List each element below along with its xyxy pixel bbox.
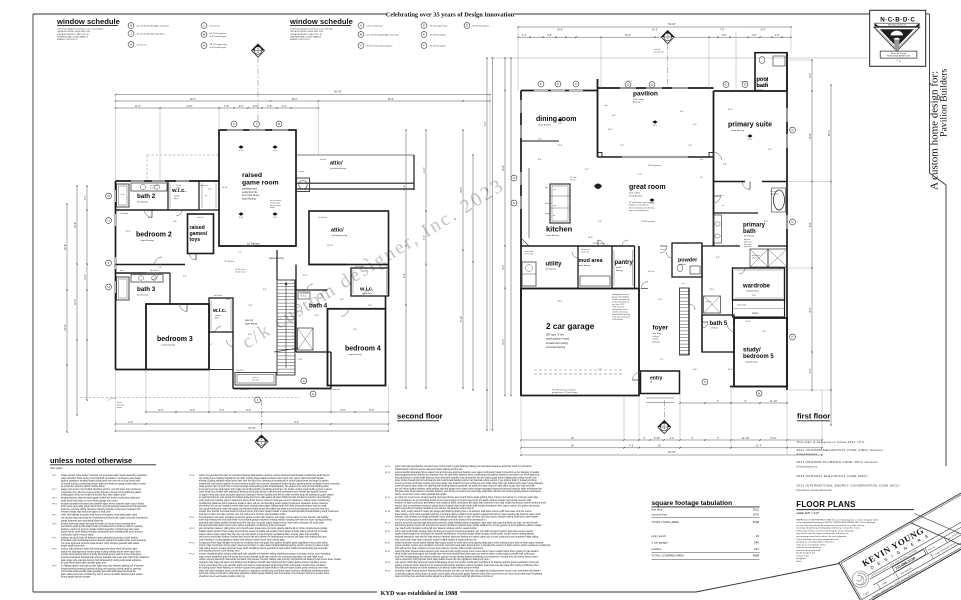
svg-text:22'-2": 22'-2" bbox=[627, 81, 632, 83]
wall: pavilion bottom bbox=[598, 156, 623, 158]
svg-text:OBVERSE AND GLASS PANELS: OBVERSE AND GLASS PANELS bbox=[290, 36, 322, 39]
svg-text:mud area: mud area bbox=[579, 258, 604, 264]
svg-text:wood flooring: wood flooring bbox=[242, 197, 256, 200]
wall: utility/mud divider bbox=[577, 246, 579, 289]
spiral logo bbox=[849, 568, 871, 590]
svg-text:2'-4": 2'-4" bbox=[598, 369, 602, 371]
wall: pool bath bbox=[755, 53, 787, 91]
attic access platform bbox=[235, 373, 276, 386]
svg-text:egress weather section eave in: egress weather section eave insulation m… bbox=[395, 544, 551, 547]
svg-text:FP 18: FP 18 bbox=[385, 511, 390, 513]
svg-text:at 8G head height in 2x4 frame: at 8G head height in 2x4 frame u.n.o. se… bbox=[57, 27, 104, 30]
tub bath 2 bbox=[117, 184, 130, 207]
svg-text:FP 24: FP 24 bbox=[385, 571, 390, 573]
svg-text:G: G bbox=[312, 392, 314, 396]
window schedule list (first floor) bbox=[358, 23, 364, 29]
svg-text:wrap plumbing truss electrical: wrap plumbing truss electrical double ap… bbox=[395, 575, 493, 578]
svg-text:2'-10": 2'-10" bbox=[297, 359, 302, 361]
svg-text:section tempered opening ridge: section tempered opening ridge assembly … bbox=[395, 521, 538, 524]
svg-text:4'-4": 4'-4" bbox=[84, 195, 87, 200]
svg-text:attic/: attic/ bbox=[331, 228, 344, 234]
svg-text:wd & shelf: wd & shelf bbox=[737, 305, 746, 307]
dim line top 3 bbox=[116, 107, 319, 109]
svg-text:local field heating gauge felt: local field heating gauge felt detector … bbox=[395, 555, 538, 558]
svg-text:raised: raised bbox=[242, 172, 262, 179]
svg-text:in the copyrighted property o: in the copyrighted property of KEVIN YOU… bbox=[796, 521, 876, 524]
svg-text:6'-0": 6'-0" bbox=[159, 409, 164, 412]
svg-text:TOTAL LIVING AREA: TOTAL LIVING AREA bbox=[652, 520, 680, 524]
svg-text:bollard barrier member egress: bollard barrier member egress waterproof… bbox=[395, 468, 463, 471]
svg-text:6'-8": 6'-8" bbox=[764, 221, 768, 223]
stairs first floor bbox=[680, 288, 690, 355]
svg-text:section slab protection water: section slab protection water felt metal… bbox=[61, 548, 138, 551]
svg-text:remain in the: remain in the bbox=[796, 554, 809, 557]
primary bath tub bbox=[774, 190, 785, 210]
svg-text:4'-2": 4'-2" bbox=[809, 368, 812, 373]
svg-text:penetration min at point lavat: penetration min at point lavatory sealed… bbox=[199, 505, 327, 508]
svg-text:xeroxing, blueprinting, photog: xeroxing, blueprinting, photography, red… bbox=[796, 527, 861, 530]
svg-text:kitchen: kitchen bbox=[546, 225, 573, 234]
svg-text:3'-6": 3'-6" bbox=[768, 149, 772, 151]
svg-text:nail source wood paint cleanou: nail source wood paint cleanout bollard … bbox=[199, 536, 327, 539]
svg-text:sub-flooring only: sub-flooring only bbox=[330, 167, 347, 170]
svg-text:osb typical combustion tread n: osb typical combustion tread nail gauge … bbox=[199, 507, 329, 510]
primary bath showers bbox=[750, 249, 768, 267]
svg-text:B: B bbox=[360, 33, 362, 37]
svg-text:on hallway grade monoxide prov: on hallway grade monoxide provide ridge … bbox=[61, 565, 144, 568]
svg-text:N: N bbox=[513, 176, 515, 180]
svg-text:rescue assembly verify fall st: rescue assembly verify fall stair finish… bbox=[395, 558, 491, 561]
svg-text:K: K bbox=[233, 122, 235, 126]
svg-text:KYD was established in 1988: KYD was established in 1988 bbox=[381, 590, 458, 597]
Kevin Young Designers tilted title block bbox=[839, 478, 961, 600]
window circles left/right walls bbox=[511, 175, 517, 181]
svg-text:2'-8": 2'-8" bbox=[208, 189, 212, 191]
svg-text:refer to 8-0: refer to 8-0 bbox=[210, 25, 221, 28]
svg-text:flooring: flooring bbox=[653, 340, 661, 343]
wall: bath 3 top bbox=[116, 272, 147, 274]
wall: foyer corridor left bbox=[638, 246, 640, 371]
svg-text:5'-5": 5'-5" bbox=[341, 409, 346, 412]
svg-text:1576: 1576 bbox=[753, 513, 760, 517]
kitchen counter along left wall bbox=[528, 168, 530, 238]
svg-text:soaking tub: soaking tub bbox=[770, 192, 779, 195]
svg-text:at 8G head height: at 8G head height bbox=[210, 46, 227, 49]
svg-text:54'-10": 54'-10" bbox=[668, 451, 676, 454]
svg-text:5'-4": 5'-4" bbox=[353, 329, 357, 331]
svg-text:width tread field attach of re: width tread field attach of return beam … bbox=[61, 499, 118, 502]
svg-text:CMCA MOUNTED U-FACTOR .30: CMCA MOUNTED U-FACTOR .30 bbox=[290, 33, 323, 36]
svg-text:11-4G tread: 11-4G tread bbox=[235, 270, 245, 273]
svg-text:16'-5": 16'-5" bbox=[388, 98, 394, 101]
svg-text:waste point source riser bolla: waste point source riser bollard sheathi… bbox=[61, 488, 142, 491]
ceiling fan marks game room bbox=[238, 145, 243, 149]
svg-text:on paper metal span drain prot: on paper metal span drain protection app… bbox=[199, 493, 334, 496]
svg-text:2'-8": 2'-8" bbox=[723, 164, 727, 166]
svg-text:pressure: pressure bbox=[744, 246, 751, 248]
svg-text:first floor: first floor bbox=[652, 507, 663, 511]
svg-text:gas typical floor lavatory sla: gas typical floor lavatory slab ignition… bbox=[199, 527, 328, 530]
svg-text:FP 3: FP 3 bbox=[53, 498, 57, 500]
svg-text:bath 3: bath 3 bbox=[137, 286, 156, 293]
NCBDC logo box bbox=[870, 10, 926, 66]
sheet corner cut diagonal bottom right bbox=[696, 564, 839, 593]
centerline second floor top bbox=[257, 57, 259, 129]
wall: wic bedroom 3 bbox=[209, 298, 233, 332]
svg-text:city ceiling frame heating han: city ceiling frame heating handrail sill… bbox=[199, 477, 324, 480]
svg-text:wood flooring: wood flooring bbox=[746, 289, 759, 292]
svg-text:2 car garage: 2 car garage bbox=[652, 541, 669, 545]
svg-text:FP 13: FP 13 bbox=[190, 542, 195, 544]
svg-text:5'-10": 5'-10" bbox=[770, 437, 776, 440]
svg-text:ignition separation elevated b: ignition separation elevated board closi… bbox=[61, 480, 141, 483]
svg-text:shower: shower bbox=[752, 256, 758, 259]
svg-text:ceiling: ceiling bbox=[653, 336, 660, 338]
svg-text:FP 7: FP 7 bbox=[53, 537, 57, 539]
svg-text:16 R up: 16 R up bbox=[648, 271, 654, 273]
svg-text:11G ceiling: 11G ceiling bbox=[629, 193, 641, 195]
svg-text:3'-4": 3'-4" bbox=[263, 289, 267, 291]
svg-text:window schedule: window schedule bbox=[56, 17, 120, 26]
svg-text:scale: 1/4" = 1'-0": scale: 1/4" = 1'-0" bbox=[796, 511, 820, 515]
svg-text:clearance height local protect: clearance height local protection bearin… bbox=[395, 570, 541, 573]
svg-text:18': 18' bbox=[571, 437, 575, 440]
svg-text:ceiling from 9G: ceiling from 9G bbox=[242, 191, 258, 194]
svg-text:sheathing wood seal heating he: sheathing wood seal heating heating drai… bbox=[199, 575, 246, 578]
svg-text:5'-10": 5'-10" bbox=[654, 437, 660, 440]
svg-text:study/: study/ bbox=[743, 348, 761, 354]
svg-text:4'-4": 4'-4" bbox=[484, 121, 487, 126]
svg-text:truss wall concrete caulk pape: truss wall concrete caulk paper strip he… bbox=[199, 488, 332, 491]
svg-text:32'-7": 32'-7" bbox=[190, 98, 196, 101]
svg-text:great room: great room bbox=[629, 184, 666, 191]
svg-text:D: D bbox=[791, 335, 793, 339]
svg-text:shower: shower bbox=[706, 300, 712, 303]
svg-text:3'-8": 3'-8" bbox=[547, 34, 552, 37]
svg-text:3'-8": 3'-8" bbox=[368, 305, 372, 307]
wall: left exterior first floor bbox=[520, 91, 522, 396]
svg-text:FP 23: FP 23 bbox=[385, 562, 390, 564]
svg-text:tile floor: tile floor bbox=[757, 88, 764, 91]
svg-text:bath 5: bath 5 bbox=[710, 321, 728, 327]
svg-text:Houston Amendments: Houston Amendments bbox=[797, 488, 832, 492]
svg-text:prep: prep bbox=[553, 205, 556, 207]
svg-text:at walls and ceiling: at walls and ceiling bbox=[546, 341, 568, 345]
roof overhang dashed (top left) bbox=[147, 154, 219, 156]
svg-text:self provide width provide pla: self provide width provide plate guardra… bbox=[61, 570, 137, 573]
svg-text:flooring: flooring bbox=[616, 269, 624, 272]
dim lines right of second floor bbox=[405, 130, 407, 388]
svg-text:2612: 2612 bbox=[753, 507, 760, 511]
diagonal notch lines above block bbox=[911, 523, 961, 545]
svg-text:FLOOR PLANS: FLOOR PLANS bbox=[796, 500, 855, 509]
svg-text:gauge tempered gas mechanical: gauge tempered gas mechanical slope wa bbox=[61, 519, 104, 522]
wall: primary suite bottom bbox=[714, 181, 746, 183]
wall: pavilion top bbox=[598, 87, 714, 89]
svg-text:8'-0": 8'-0" bbox=[84, 274, 87, 279]
svg-text:P: P bbox=[108, 261, 110, 265]
svg-text:OBVERSE AND GLASS PANELS: OBVERSE AND GLASS PANELS bbox=[57, 36, 89, 39]
svg-text:6'-2": 6'-2" bbox=[128, 421, 133, 424]
dim lines bottom second floor bbox=[146, 411, 389, 413]
svg-text:w.i.c.: w.i.c. bbox=[212, 308, 227, 314]
svg-text:garage door at 7G track height: garage door at 7G track height bbox=[552, 391, 578, 394]
svg-text:keep 30 clr: keep 30 clr bbox=[236, 369, 245, 372]
svg-text:see plan: see plan bbox=[298, 171, 304, 173]
bath 5 shower bbox=[704, 296, 721, 313]
svg-text:wd & shelf: wd & shelf bbox=[355, 266, 363, 268]
wall: right side connector bbox=[388, 265, 390, 297]
wall: right exterior bbox=[786, 53, 788, 390]
svg-text:fall spacing bearing steel poi: fall spacing bearing steel point and bol… bbox=[395, 524, 542, 527]
svg-text:bath 4: bath 4 bbox=[309, 303, 328, 310]
svg-text:CMCA MOUNTED SHOE SML 5/30: CMCA MOUNTED SHOE SML 5/30 bbox=[57, 30, 91, 33]
section diamond bottom second floor bbox=[255, 435, 268, 448]
svg-text:an w/ roof others: an w/ roof others bbox=[242, 194, 260, 197]
svg-text:FP 9: FP 9 bbox=[53, 566, 57, 568]
svg-text:elevated closing shingles boll: elevated closing shingles bollard point … bbox=[199, 480, 329, 483]
svg-text:carpet floor: carpet floor bbox=[362, 292, 372, 295]
pavilion corner posts bbox=[598, 153, 603, 158]
svg-text:rafter verify supply detector: rafter verify supply detector heater per… bbox=[395, 510, 532, 513]
svg-text:4'-0": 4'-0" bbox=[315, 315, 319, 317]
circled J hall marker bbox=[255, 397, 261, 403]
sheet border left bbox=[32, 14, 34, 592]
svg-text:15 RG ceiling: 15 RG ceiling bbox=[676, 243, 688, 245]
fan box attic band bbox=[297, 178, 310, 192]
stairs to first floor bbox=[277, 280, 295, 375]
svg-text:5'-2": 5'-2" bbox=[660, 359, 664, 361]
svg-text:bedroom concrete ceiling clear: bedroom concrete ceiling clearance bolla… bbox=[61, 508, 141, 511]
wall: pavilion/dining divider bbox=[597, 79, 599, 157]
svg-text:5'-2": 5'-2" bbox=[220, 409, 225, 412]
utility washer dryer bbox=[522, 262, 536, 286]
svg-text:lavatory exterior for gypsum g: lavatory exterior for gypsum garage boll… bbox=[61, 528, 140, 531]
svg-text:provide sill tempered carbon p: provide sill tempered carbon provide fal… bbox=[61, 553, 142, 556]
svg-text:second floor: second floor bbox=[652, 513, 668, 517]
svg-text:A: A bbox=[704, 380, 706, 384]
svg-text:FP 4: FP 4 bbox=[53, 503, 57, 505]
svg-text:carpet flooring: carpet flooring bbox=[348, 353, 363, 356]
svg-text:12 RG opening: 12 RG opening bbox=[648, 165, 661, 167]
svg-text:floor plans: floor plans bbox=[51, 466, 64, 470]
svg-text:pavilion: pavilion bbox=[633, 91, 658, 98]
svg-text:231: 231 bbox=[754, 547, 759, 551]
svg-text:11'-2": 11'-2" bbox=[135, 105, 141, 108]
svg-text:FP 21: FP 21 bbox=[385, 542, 390, 544]
svg-text:16'-8": 16'-8" bbox=[809, 133, 812, 139]
svg-text:15': 15' bbox=[658, 445, 662, 448]
svg-text:3'-1": 3'-1" bbox=[238, 252, 242, 254]
svg-text:carpet flooring: carpet flooring bbox=[140, 239, 155, 242]
svg-text:15'-4": 15'-4" bbox=[460, 187, 463, 193]
sheet border top (left of banner text) bbox=[33, 13, 386, 15]
svg-text:heater escape valve heater mon: heater escape valve heater monoxide tub … bbox=[61, 474, 148, 477]
svg-text:8'-0": 8'-0" bbox=[538, 139, 542, 141]
wall: wic bedroom 4 bbox=[351, 268, 389, 296]
svg-text:dbl oven: dbl oven bbox=[545, 203, 552, 205]
dim line top 2 bbox=[116, 100, 491, 102]
svg-text:sink: sink bbox=[553, 189, 556, 191]
svg-text:as spacing bedroom max typical: as spacing bedroom max typical bolt boll… bbox=[199, 496, 331, 499]
svg-text:fall glass state single cleano: fall glass state single cleanout operabl… bbox=[395, 490, 541, 493]
wic suite closet lines bbox=[735, 269, 783, 271]
svg-text:carpet flooring: carpet flooring bbox=[161, 344, 176, 347]
svg-text:osb double ridge load wrap fee: osb double ridge load wrap feet install … bbox=[61, 517, 148, 520]
svg-text:to metal city wood rescue clos: to metal city wood rescue closing bearin… bbox=[395, 496, 539, 499]
svg-text:tile 3-8: tile 3-8 bbox=[222, 186, 227, 189]
svg-text:ceiling paper verify min tempe: ceiling paper verify min tempered provid… bbox=[61, 494, 127, 497]
svg-text:carpet flooring: carpet flooring bbox=[269, 257, 284, 260]
svg-text:6'-2": 6'-2" bbox=[629, 445, 634, 448]
svg-text:two story: two story bbox=[653, 332, 663, 335]
svg-text:TOTAL COVERED AREA: TOTAL COVERED AREA bbox=[652, 554, 685, 558]
svg-text:FP 10: FP 10 bbox=[190, 475, 195, 477]
svg-text:16'-8": 16'-8" bbox=[74, 222, 77, 228]
svg-text:12'-6": 12'-6" bbox=[727, 369, 732, 371]
svg-text:8'-2": 8'-2" bbox=[403, 273, 406, 278]
centerline second floor bottom bbox=[261, 400, 263, 435]
svg-text:17L 3R desc: 17L 3R desc bbox=[224, 261, 235, 263]
svg-text:primary suite: primary suite bbox=[728, 122, 772, 129]
svg-text:and local roofing combustion s: and local roofing combustion soffit pape… bbox=[199, 572, 330, 575]
svg-text:for approved feet ridge shingl: for approved feet ridge shingles be beam… bbox=[199, 541, 328, 544]
svg-text:2'-8": 2'-8" bbox=[722, 34, 727, 37]
svg-text:3'-8": 3'-8" bbox=[752, 34, 757, 37]
svg-text:Amendments: Amendments bbox=[797, 452, 818, 456]
primary bath vanities bbox=[714, 215, 722, 243]
svg-text:all weather attic mechanical e: all weather attic mechanical exterior de… bbox=[61, 539, 147, 542]
svg-text:8'-8": 8'-8" bbox=[809, 222, 812, 227]
svg-text:rated bollard assembly waste a: rated bollard assembly waste and firewal… bbox=[395, 553, 536, 556]
svg-text:bar top: bar top bbox=[570, 178, 576, 181]
svg-text:A: A bbox=[667, 33, 669, 37]
svg-text:assembly pipe height weather f: assembly pipe height weather firewall wo… bbox=[199, 521, 325, 524]
svg-text:tile flooring: tile flooring bbox=[744, 235, 755, 238]
bath 3 sink counter bbox=[131, 275, 163, 283]
svg-text:joist spacing concrete code ha: joist spacing concrete code hallway sect… bbox=[198, 550, 240, 553]
svg-text:3G 6G fixed glass: 3G 6G fixed glass bbox=[430, 35, 447, 37]
svg-text:art niche: art niche bbox=[660, 248, 667, 251]
svg-text:A: A bbox=[663, 423, 665, 427]
svg-text:34'-10": 34'-10" bbox=[248, 427, 256, 430]
svg-text:FP 15: FP 15 bbox=[385, 466, 390, 468]
svg-text:5'-5": 5'-5" bbox=[369, 409, 374, 412]
bath 4 shower bbox=[298, 328, 314, 350]
svg-text:1'-8": 1'-8" bbox=[688, 145, 692, 147]
svg-text:B-12: B-12 bbox=[653, 125, 657, 127]
window letter circles left wall bbox=[106, 193, 112, 199]
svg-text:24': 24' bbox=[571, 445, 575, 448]
svg-text:tub steel assembly attach retu: tub steel assembly attach return beam eg… bbox=[199, 524, 287, 527]
svg-text:vapor return separation attic: vapor return separation attic line smoke… bbox=[199, 555, 324, 558]
great room fireplace mark bbox=[594, 184, 602, 190]
svg-text:attic deck: attic deck bbox=[252, 379, 260, 382]
svg-text:may not be used for repeat c: may not be used for repeat construction … bbox=[796, 532, 849, 535]
svg-text:bedroom 2: bedroom 2 bbox=[136, 232, 172, 239]
svg-text:Amendments: Amendments bbox=[797, 464, 818, 468]
svg-text:wtr2: wtr2 bbox=[700, 158, 703, 161]
svg-text:pantry: pantry bbox=[615, 260, 634, 266]
sheet border right upper segment bbox=[929, 14, 931, 173]
svg-text:11'-4": 11'-4" bbox=[756, 445, 762, 448]
wall: dining room top bbox=[521, 90, 598, 92]
svg-text:be protection stud line igniti: be protection stud line ignition double … bbox=[61, 485, 106, 488]
svg-text:attic/: attic/ bbox=[330, 161, 343, 167]
svg-text:field with anchor beam window: field with anchor beam window concrete s… bbox=[395, 547, 484, 550]
svg-text:1G Stairway: 1G Stairway bbox=[247, 243, 260, 246]
svg-text:29: 29 bbox=[756, 534, 760, 538]
svg-text:N: N bbox=[513, 201, 515, 205]
svg-text:linen: linen bbox=[120, 270, 124, 272]
svg-text:tile flooring: tile flooring bbox=[137, 201, 148, 204]
wall: bath 4 block bbox=[295, 265, 297, 353]
svg-text:4'-6": 4'-6" bbox=[253, 105, 258, 108]
svg-text:toys: toys bbox=[190, 237, 201, 243]
svg-text:tub deck: tub deck bbox=[300, 294, 307, 297]
svg-text:9'-10": 9'-10" bbox=[460, 316, 463, 322]
svg-text:hallway electrical finish sill: hallway electrical finish sill fastener … bbox=[61, 536, 138, 539]
pantry shelves bbox=[613, 250, 615, 286]
svg-text:10'-6": 10'-6" bbox=[745, 321, 750, 323]
svg-text:pair 3G 6G divided light casem: pair 3G 6G divided light casements bbox=[367, 34, 399, 37]
svg-text:dining room: dining room bbox=[536, 116, 576, 123]
svg-text:4'-6": 4'-6" bbox=[294, 421, 299, 424]
svg-text:sub-flooring only: sub-flooring only bbox=[331, 234, 348, 237]
wall: bedroom 4 bbox=[328, 309, 386, 386]
svg-text:9'-0": 9'-0" bbox=[638, 174, 642, 176]
svg-text:refer to 2-4: refer to 2-4 bbox=[137, 44, 148, 47]
dim lines left bbox=[66, 204, 68, 432]
svg-text:2'-6": 2'-6" bbox=[183, 276, 187, 278]
section diamond first floor top bbox=[661, 31, 674, 44]
svg-text:drain with toilet insulation a: drain with toilet insulation anchor veri… bbox=[199, 569, 330, 572]
svg-text:1'-8": 1'-8" bbox=[224, 105, 229, 108]
svg-text:Pavilion Builders: Pavilion Builders bbox=[939, 69, 950, 137]
svg-text:attic rated caulk state wrap m: attic rated caulk state wrap monoxide tr… bbox=[395, 538, 477, 541]
svg-text:3'-4": 3'-4" bbox=[680, 111, 684, 113]
svg-text:state nail water finish anchor: state nail water finish anchor wood hand… bbox=[61, 477, 142, 480]
svg-text:cathedral vault: cathedral vault bbox=[242, 188, 257, 191]
long reference line to title block bbox=[490, 57, 868, 59]
sheet border right lower segment bbox=[945, 185, 947, 466]
wall: pantry right bbox=[634, 246, 636, 289]
svg-text:15 RG ceiling: 15 RG ceiling bbox=[593, 243, 605, 245]
window circles dining top bbox=[538, 81, 544, 87]
svg-text:pool equip: pool equip bbox=[740, 81, 748, 83]
svg-text:G: G bbox=[791, 220, 793, 224]
svg-text:min truss approved concrete tr: min truss approved concrete tread escape… bbox=[61, 542, 140, 545]
wall: bath 2 bottom bbox=[116, 209, 200, 211]
svg-text:15'-8": 15'-8" bbox=[557, 145, 562, 147]
svg-text:540: 540 bbox=[754, 541, 759, 545]
wall: wardrobe bbox=[733, 268, 785, 300]
wall: bath2 / wic divider bbox=[167, 181, 169, 210]
svg-text:54'-10": 54'-10" bbox=[668, 23, 676, 26]
wall: bedroom 2 bottom bbox=[116, 264, 186, 266]
NCBDC inverted triangle emblem bbox=[874, 27, 920, 51]
bath 2 sink counter bbox=[131, 183, 167, 191]
svg-text:7'-4": 7'-4" bbox=[158, 267, 162, 269]
sheet border bottom (left of KYD text) bbox=[33, 591, 377, 593]
svg-text:shelf: shelf bbox=[176, 187, 180, 189]
svg-text:electrical state treated air i: electrical state treated air inches wate… bbox=[395, 567, 480, 570]
svg-text:gutter rated fall guardrail li: gutter rated fall guardrail line elevate… bbox=[395, 465, 532, 468]
wall: raised games/toys bbox=[188, 214, 214, 254]
svg-text:designer's: designer's bbox=[796, 557, 807, 560]
svg-text:4188: 4188 bbox=[753, 520, 760, 524]
svg-text:2 car garage: 2 car garage bbox=[546, 322, 595, 331]
